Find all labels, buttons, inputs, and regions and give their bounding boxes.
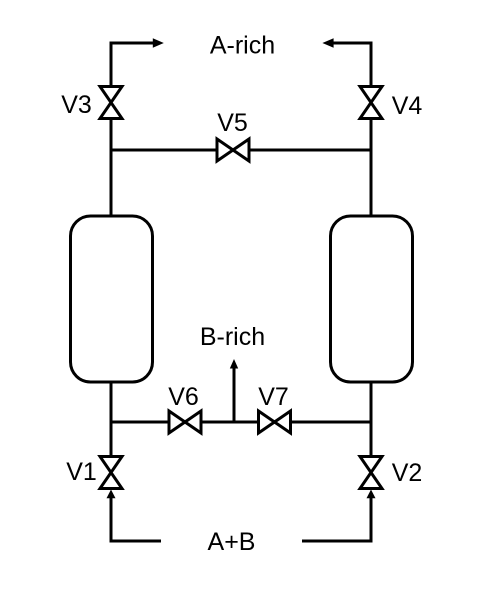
wire: V5 cross line left segment: [111, 149, 218, 152]
vessel: right adsorber column: [331, 216, 413, 382]
wire: B-rich stem from junction: [233, 367, 236, 422]
valve V7: [259, 411, 291, 433]
wire: left feed horizontal stub: [110, 540, 162, 543]
svg-text:V3: V3: [61, 91, 92, 119]
wire: left feed riser below V1: [110, 497, 113, 543]
valve V5: [217, 139, 249, 161]
arrowhead: right feed into V2: [367, 490, 376, 499]
wire: left vessel bottom to V1 (through V6 junction): [110, 381, 113, 458]
wire: right vessel bottom to V2 (through V7 junction): [370, 381, 373, 458]
wire: V5 cross line right segment: [248, 149, 371, 152]
valve V6: [169, 411, 201, 433]
wire: left vertical V3 to vessel top (through V5 junction): [110, 117, 113, 217]
valve V3: [100, 87, 122, 119]
valve V4: [360, 87, 382, 119]
arrowhead: top-right A-rich outlet: [322, 38, 333, 48]
wire: right vertical V4 to vessel top (through V5 junction): [370, 117, 373, 217]
wire: top-left product line (vertical riser to A-rich header): [110, 43, 113, 88]
wire: bottom cross line, V6 to V7: [200, 421, 260, 424]
svg-text:V7: V7: [258, 383, 289, 411]
arrowhead: B-rich stem: [230, 359, 238, 369]
svg-text:A-rich: A-rich: [210, 32, 275, 60]
arrowhead: top-left A-rich outlet: [153, 38, 164, 48]
vessel: left adsorber column: [71, 216, 153, 382]
svg-text:B-rich: B-rich: [200, 323, 265, 351]
svg-text:V6: V6: [168, 383, 199, 411]
svg-text:A+B: A+B: [208, 528, 256, 556]
valve V2: [360, 457, 382, 489]
wire: bottom cross line, left vertical to V6: [111, 421, 170, 424]
svg-text:V4: V4: [392, 92, 423, 120]
svg-text:V5: V5: [217, 109, 248, 137]
wire: top-right vertical riser to V4: [370, 43, 373, 88]
wire: bottom cross line, V7 to right vertical: [289, 421, 371, 424]
wire: top-left horizontal A-rich outlet: [110, 42, 155, 45]
valve V1: [100, 457, 122, 489]
wire: right feed riser below V2: [370, 497, 373, 543]
svg-text:V1: V1: [66, 458, 97, 486]
svg-text:V2: V2: [392, 459, 423, 487]
arrowhead: left feed into V1: [107, 490, 116, 499]
wire: right feed horizontal stub: [302, 540, 373, 543]
wire: top-right horizontal A-rich outlet: [333, 42, 373, 45]
